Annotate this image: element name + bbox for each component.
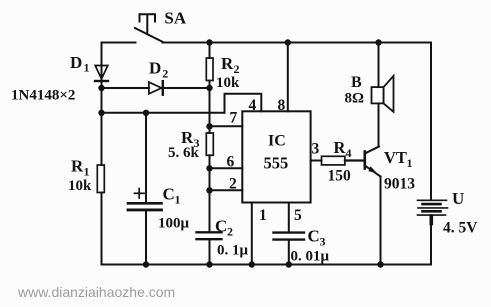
node junction R3 top / pin 7: [206, 123, 212, 129]
svg-text:D: D: [70, 53, 82, 72]
node junction C3 / ground rail: [286, 261, 292, 267]
wire left rail middle segment: [101, 88, 103, 165]
wire pin 1 to ground: [251, 203, 253, 265]
svg-text:10k: 10k: [68, 178, 92, 194]
wire pin 6: [210, 167, 243, 169]
svg-text:B: B: [351, 74, 362, 91]
pin 4 label: [249, 97, 257, 114]
svg-text:10k: 10k: [216, 75, 240, 91]
svg-text:3: 3: [320, 235, 326, 249]
svg-text:C: C: [215, 217, 227, 236]
battery U 4.5V: [418, 189, 479, 237]
wire D2 anode lead: [102, 87, 149, 89]
resistor R2: [206, 43, 240, 92]
wire right rail lower: [430, 224, 432, 265]
node junction top rail / speaker: [375, 39, 381, 45]
svg-text:0. 1μ: 0. 1μ: [217, 243, 249, 259]
speaker B: [345, 74, 394, 112]
svg-text:3: 3: [312, 141, 320, 158]
svg-text:5. 6k: 5. 6k: [168, 145, 200, 161]
svg-text:150: 150: [328, 168, 352, 185]
diode D1: [70, 53, 108, 88]
wire SA left lead: [102, 42, 136, 44]
svg-text:1N4148×2: 1N4148×2: [11, 88, 75, 104]
svg-text:1: 1: [175, 193, 181, 207]
svg-text:7: 7: [230, 110, 238, 127]
svg-text:0. 01μ: 0. 01μ: [291, 249, 330, 265]
wire emitter down to ground rail: [380, 177, 382, 265]
node junction C2 / ground rail: [206, 261, 212, 267]
svg-text:5: 5: [294, 207, 302, 224]
wire pin6 node to pin2 node: [209, 168, 211, 190]
node junction R2 bottom / D2: [206, 85, 212, 91]
svg-text:1: 1: [407, 156, 413, 170]
wire pin 7: [210, 125, 243, 127]
svg-text:9013: 9013: [384, 176, 415, 193]
wire pin 8 vertical: [287, 43, 289, 112]
node junction pin 2 / C2: [206, 187, 212, 193]
pin 5 label: [294, 207, 302, 224]
svg-text:8Ω: 8Ω: [345, 91, 365, 107]
wire pin2 node down to C2: [209, 190, 211, 232]
pin 6 label: [227, 154, 235, 171]
diode D2: [149, 59, 168, 95]
svg-text:555: 555: [264, 154, 289, 173]
node junction left rail / control wire: [98, 110, 104, 116]
svg-text:VT: VT: [384, 148, 407, 167]
wire pin 3 output: [311, 160, 322, 162]
node junction C1 / ground rail: [143, 261, 149, 267]
wire pin 2: [210, 189, 243, 191]
node junction top rail / R2: [206, 39, 212, 45]
wire reset control line: [102, 112, 225, 114]
svg-text:D: D: [149, 59, 161, 78]
pin 1 label: [259, 207, 267, 224]
svg-text:4. 5V: 4. 5V: [443, 220, 478, 237]
node junction emitter / ground rail: [377, 261, 383, 267]
watermark: [17, 284, 175, 300]
wire pin 5 to C3: [288, 203, 290, 233]
svg-text:2: 2: [227, 225, 233, 239]
wire left rail top segment: [101, 43, 103, 65]
pin 7 label: [230, 110, 238, 127]
label 1N4148x2: [11, 88, 75, 104]
svg-text:IC: IC: [268, 133, 286, 150]
wire ground bottom rail: [102, 264, 432, 266]
capacitor C2: [197, 217, 249, 265]
svg-text:2: 2: [234, 62, 240, 76]
node junction pin1 / ground rail: [249, 261, 255, 267]
svg-text:100μ: 100μ: [158, 216, 190, 232]
transistor Q1 VT1 9013: [365, 147, 415, 193]
svg-text:C: C: [308, 227, 320, 246]
wire speaker top lead: [378, 43, 380, 88]
node junction D1 cathode / D2 anode: [98, 85, 104, 91]
svg-text:C: C: [163, 185, 175, 204]
svg-text:1: 1: [84, 61, 90, 75]
resistor R1: [68, 157, 104, 265]
svg-text:R: R: [71, 157, 84, 176]
svg-text:R: R: [221, 54, 234, 73]
svg-text:1: 1: [84, 165, 90, 179]
pin 3 label: [312, 141, 320, 158]
pin 8 label: [278, 97, 286, 114]
resistor R3: [168, 126, 213, 168]
op-amp U1 IC 555 timer box: [242, 111, 310, 202]
svg-text:SA: SA: [164, 9, 186, 28]
wire step up to pin 4: [225, 94, 262, 113]
node junction control wire / C1: [143, 110, 149, 116]
wire R2 bottom to R3 top: [209, 88, 211, 126]
switch SA: [135, 9, 187, 42]
svg-text:2: 2: [162, 67, 168, 81]
svg-text:2: 2: [229, 176, 237, 193]
capacitor C1 electrolytic: [128, 113, 190, 265]
capacitor C3: [274, 227, 330, 265]
svg-text:U: U: [452, 189, 464, 208]
svg-text:1: 1: [259, 207, 267, 224]
wire top rail: [163, 42, 432, 44]
svg-text:6: 6: [227, 154, 235, 171]
svg-text:4: 4: [249, 97, 257, 114]
wire right rail upper: [430, 43, 432, 201]
pin 2 label: [229, 176, 237, 193]
resistor R4: [322, 138, 365, 185]
node junction R3 bottom / pin 6: [206, 165, 212, 171]
svg-text:4: 4: [346, 146, 352, 160]
svg-text:www.dianziaihaozhe.com: www.dianziaihaozhe.com: [17, 284, 175, 300]
node junction top rail / pin 8: [285, 39, 291, 45]
svg-text:8: 8: [278, 97, 286, 114]
wire D2 cathode lead: [162, 87, 210, 89]
wire collector up to speaker: [378, 103, 380, 146]
